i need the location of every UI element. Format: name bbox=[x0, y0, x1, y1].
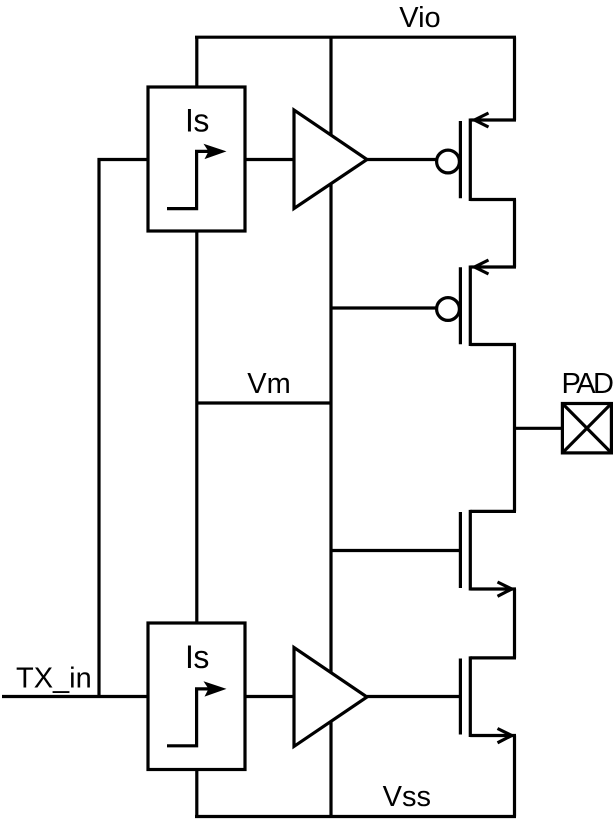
wire Vm rail tap to M2 gate bubble bbox=[331, 306, 438, 309]
svg-text:Is: Is bbox=[185, 639, 209, 675]
pad cell (box with X) bbox=[562, 404, 611, 453]
slew-rate block Is (upper) bbox=[148, 87, 245, 231]
transistor M2 (PMOS cascode) bbox=[437, 260, 516, 346]
wire Vio supply tap into U1 bbox=[329, 37, 332, 135]
wire Vss rail bbox=[195, 815, 516, 818]
wire Is2 bottom pin to Vss bbox=[195, 770, 198, 817]
wire Vm vertical rail (U1 low rail, M2 gate, Vm node, M3 gate, U2 high rail) bbox=[329, 184, 332, 673]
transistor M3 (NMOS cascode) bbox=[460, 510, 516, 596]
wire M3 source to M4 drain bbox=[513, 589, 516, 658]
wire U2 low-rail tap to Vss bbox=[329, 721, 332, 816]
wire Is2 output to buffer U2 bbox=[245, 695, 294, 698]
wire Vm node horizontal bbox=[197, 401, 331, 404]
wire TX_in riser bbox=[97, 158, 100, 698]
svg-text:TX_in: TX_in bbox=[16, 663, 92, 695]
svg-text:Is: Is bbox=[185, 103, 209, 139]
wire PAD stub bbox=[515, 427, 563, 430]
buffer U2 (lower pre-driver) bbox=[294, 648, 367, 747]
wire U1 output to M1 gate bubble bbox=[367, 158, 438, 161]
wire M1 drain to M2 source bbox=[513, 200, 516, 268]
svg-text:Vss: Vss bbox=[383, 781, 431, 813]
svg-text:Vm: Vm bbox=[247, 368, 291, 400]
wire M4 source to Vss rail bbox=[513, 736, 516, 817]
slew-rate block Is (lower) bbox=[148, 623, 245, 770]
wire Vio rail bbox=[195, 36, 516, 39]
wire Vm rail tap to M3 gate bbox=[331, 549, 460, 552]
wire M2 drain down to PAD node bbox=[513, 345, 516, 512]
buffer U1 (upper pre-driver) bbox=[294, 110, 367, 209]
wire Is column (Is1 bottom to Is2 top through Vm) bbox=[195, 231, 198, 623]
transistor M4 (NMOS, bottom) bbox=[460, 656, 516, 742]
wire U2 output to M4 gate bbox=[367, 695, 460, 698]
svg-text:PAD: PAD bbox=[562, 368, 614, 400]
wire Is1 output to buffer U1 bbox=[245, 158, 294, 161]
wire riser corner to Is1 input bbox=[98, 158, 149, 161]
transistor M1 (PMOS, top) bbox=[437, 113, 516, 201]
svg-text:Vio: Vio bbox=[399, 2, 440, 34]
wire Vio to Is1 top pin bbox=[195, 37, 198, 87]
wire TX_in input bbox=[2, 695, 148, 698]
wire right rail: Vio to M1 source bbox=[513, 37, 516, 120]
